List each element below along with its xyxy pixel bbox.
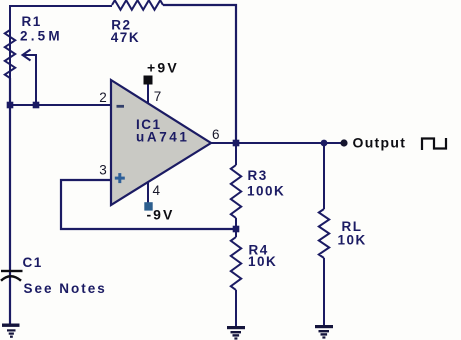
resistor RL	[319, 143, 329, 326]
-9V supply terminal	[144, 202, 152, 210]
output terminal dot	[340, 139, 347, 146]
svg-text:R3: R3	[248, 168, 268, 183]
svg-text:100K: 100K	[247, 183, 285, 198]
pin 4 wire	[147, 182, 149, 203]
node output / RL junction	[321, 140, 328, 147]
resistor R2	[112, 0, 163, 10]
node R3/R4 junction	[233, 226, 240, 233]
op-amp plus input mark	[115, 173, 125, 183]
svg-text:10K: 10K	[248, 254, 277, 269]
svg-text:See Notes: See Notes	[24, 281, 107, 296]
+9V supply terminal	[144, 76, 153, 85]
svg-text:3: 3	[99, 163, 107, 178]
svg-text:10K: 10K	[338, 233, 367, 248]
wire inverting input (pin 2)	[10, 104, 111, 106]
ground left	[2, 324, 20, 338]
node junction left wire / pin2	[7, 102, 14, 109]
capacitor C1	[1, 270, 23, 281]
pin 7 wire	[147, 84, 149, 104]
svg-text:Output: Output	[353, 135, 407, 151]
svg-text:-9V: -9V	[147, 207, 175, 223]
svg-text:+9V: +9V	[147, 60, 179, 76]
op-amp minus input mark	[117, 105, 125, 108]
resistor R4	[231, 229, 241, 326]
resistor R1	[5, 30, 15, 78]
node output / R3 junction	[233, 140, 240, 147]
svg-text:7: 7	[154, 89, 162, 104]
op-amp U1 triangle	[111, 80, 211, 205]
wire left column down to ground	[9, 78, 11, 324]
svg-text:C1: C1	[23, 255, 43, 270]
svg-text:2.5M: 2.5M	[20, 29, 63, 44]
wire output (pin 6)	[211, 142, 344, 144]
svg-text:R1: R1	[22, 14, 42, 29]
svg-text:2: 2	[99, 90, 107, 105]
wire top left vertical	[10, 6, 112, 78]
svg-text:47K: 47K	[111, 30, 140, 45]
square wave symbol	[422, 138, 446, 150]
R1 wiper arrow	[23, 50, 37, 106]
svg-text:6: 6	[212, 127, 220, 142]
wire non-inverting feedback (pin 3 loop)	[61, 180, 236, 229]
node junction wiper / pin2	[33, 102, 40, 109]
ground R4	[227, 326, 245, 340]
wire R2 to feedback vertical	[163, 5, 236, 143]
resistor R3	[231, 143, 241, 229]
ground RL	[315, 325, 333, 339]
svg-text:4: 4	[153, 183, 161, 198]
svg-text:uA741: uA741	[136, 130, 190, 145]
